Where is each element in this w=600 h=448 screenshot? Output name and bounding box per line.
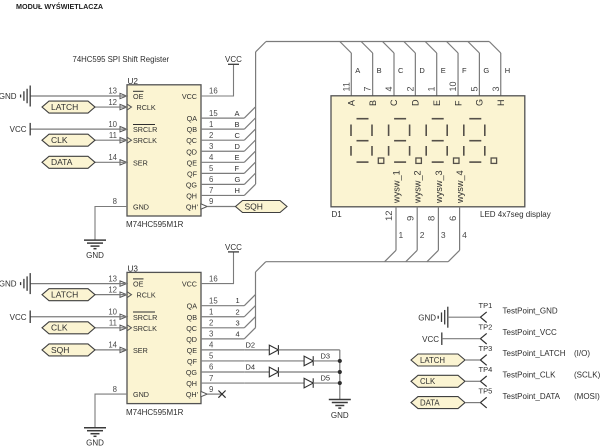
svg-text:7: 7	[363, 86, 373, 91]
svg-text:G: G	[483, 66, 489, 75]
svg-text:TestPoint_CLK: TestPoint_CLK	[503, 371, 557, 380]
svg-text:1: 1	[236, 296, 240, 305]
svg-text:SER: SER	[133, 158, 148, 167]
svg-text:12: 12	[108, 98, 117, 107]
svg-text:QH: QH	[186, 379, 197, 388]
svg-text:OE: OE	[133, 92, 144, 101]
svg-text:10: 10	[108, 307, 117, 316]
svg-text:QA: QA	[187, 302, 198, 311]
svg-text:VCC: VCC	[225, 243, 242, 252]
svg-text:H: H	[496, 100, 506, 107]
svg-text:U2: U2	[128, 77, 139, 86]
svg-text:(MOSI): (MOSI)	[574, 392, 600, 401]
svg-text:8: 8	[113, 385, 117, 394]
svg-text:C: C	[235, 131, 241, 140]
svg-text:F: F	[235, 164, 240, 173]
svg-text:QC: QC	[186, 136, 197, 145]
svg-text:TestPoint_LATCH: TestPoint_LATCH	[503, 349, 566, 358]
svg-text:15: 15	[209, 109, 218, 118]
svg-text:9: 9	[209, 385, 213, 394]
svg-text:QE: QE	[187, 158, 198, 167]
svg-text:11: 11	[109, 319, 117, 328]
svg-text:13: 13	[108, 87, 117, 96]
svg-text:G: G	[475, 99, 485, 106]
svg-text:10: 10	[108, 120, 117, 129]
svg-text:LED 4x7seg display: LED 4x7seg display	[480, 210, 551, 219]
svg-text:2: 2	[420, 230, 425, 240]
svg-text:4: 4	[209, 341, 214, 350]
svg-text:12: 12	[384, 210, 395, 221]
svg-text:wysw_1: wysw_1	[392, 170, 402, 204]
svg-text:4: 4	[462, 230, 467, 240]
svg-text:SRCLR: SRCLR	[133, 125, 157, 134]
svg-text:TP3: TP3	[479, 344, 493, 353]
svg-text:QH': QH'	[186, 203, 199, 212]
svg-text:CLK: CLK	[51, 323, 68, 333]
svg-text:1: 1	[209, 120, 213, 129]
svg-text:GND: GND	[133, 203, 149, 212]
svg-text:5: 5	[469, 86, 479, 91]
svg-text:SRCLR: SRCLR	[133, 313, 157, 322]
svg-text:QB: QB	[187, 125, 198, 134]
svg-text:2: 2	[209, 319, 213, 328]
svg-text:7: 7	[209, 374, 213, 383]
svg-text:D5: D5	[321, 374, 331, 383]
svg-text:VCC: VCC	[182, 280, 197, 289]
svg-text:A: A	[347, 100, 357, 106]
svg-text:3: 3	[209, 142, 213, 151]
svg-text:4: 4	[384, 86, 394, 91]
svg-text:M74HC595M1R: M74HC595M1R	[126, 220, 184, 229]
svg-text:D4: D4	[246, 363, 256, 372]
svg-text:QD: QD	[186, 335, 197, 344]
svg-text:SRCLK: SRCLK	[133, 136, 157, 145]
svg-text:D: D	[419, 66, 425, 75]
svg-text:15: 15	[209, 296, 218, 305]
svg-text:74HC595 SPI Shift Register: 74HC595 SPI Shift Register	[73, 55, 170, 64]
svg-text:D: D	[235, 142, 241, 151]
svg-text:SQH: SQH	[51, 345, 69, 355]
svg-text:5: 5	[209, 164, 214, 173]
svg-text:14: 14	[108, 341, 117, 350]
svg-text:14: 14	[108, 153, 117, 162]
svg-text:E: E	[235, 153, 240, 162]
svg-text:TestPoint_GND: TestPoint_GND	[503, 306, 558, 315]
svg-text:6: 6	[209, 175, 213, 184]
svg-text:QC: QC	[186, 324, 197, 333]
svg-text:QF: QF	[187, 169, 198, 178]
svg-text:GND: GND	[0, 280, 17, 289]
svg-text:6: 6	[209, 363, 213, 372]
svg-text:QB: QB	[187, 313, 198, 322]
svg-text:D1: D1	[332, 210, 343, 219]
svg-text:6: 6	[448, 216, 459, 221]
svg-text:F: F	[462, 66, 467, 75]
svg-text:RCLK: RCLK	[137, 291, 156, 300]
svg-text:VCC: VCC	[422, 335, 439, 344]
svg-text:3: 3	[236, 318, 240, 327]
svg-text:SER: SER	[133, 346, 148, 355]
svg-text:TestPoint_DATA: TestPoint_DATA	[503, 392, 561, 401]
svg-text:H: H	[505, 66, 510, 75]
svg-text:16: 16	[209, 87, 218, 96]
svg-text:TestPoint_VCC: TestPoint_VCC	[503, 328, 557, 337]
svg-text:LATCH: LATCH	[51, 290, 78, 300]
svg-text:VCC: VCC	[225, 55, 242, 64]
svg-text:GND: GND	[331, 411, 349, 420]
svg-text:(SCLK): (SCLK)	[574, 371, 600, 380]
svg-text:TP4: TP4	[479, 365, 493, 374]
svg-text:3: 3	[209, 330, 213, 339]
svg-text:SQH: SQH	[245, 201, 263, 211]
svg-text:TP5: TP5	[479, 386, 493, 395]
svg-text:7: 7	[209, 186, 213, 195]
svg-text:VCC: VCC	[182, 92, 197, 101]
svg-text:2: 2	[405, 86, 415, 91]
svg-text:GND: GND	[133, 390, 149, 399]
svg-text:9: 9	[405, 216, 416, 221]
svg-text:D3: D3	[321, 351, 331, 360]
svg-text:E: E	[441, 66, 446, 75]
svg-text:8: 8	[113, 197, 117, 206]
svg-text:QH: QH	[186, 191, 197, 200]
svg-text:M74HC595M1R: M74HC595M1R	[126, 408, 184, 417]
svg-text:(I/O): (I/O)	[574, 349, 590, 358]
svg-text:SRCLK: SRCLK	[133, 324, 157, 333]
svg-text:1: 1	[209, 307, 213, 316]
svg-text:D: D	[411, 99, 421, 106]
svg-text:2: 2	[209, 131, 213, 140]
svg-text:1: 1	[399, 230, 404, 240]
svg-text:11: 11	[109, 131, 117, 140]
svg-text:A: A	[235, 109, 240, 118]
svg-text:12: 12	[108, 285, 117, 294]
svg-text:TP1: TP1	[479, 301, 493, 310]
svg-text:MODUŁ WYŚWIETLACZA: MODUŁ WYŚWIETLACZA	[16, 2, 103, 11]
svg-text:VCC: VCC	[10, 313, 27, 322]
svg-text:C: C	[398, 66, 404, 75]
svg-text:16: 16	[209, 274, 218, 283]
svg-text:QA: QA	[187, 114, 198, 123]
svg-text:9: 9	[209, 197, 213, 206]
svg-text:11: 11	[341, 82, 351, 91]
svg-text:G: G	[235, 175, 241, 184]
svg-text:4: 4	[209, 153, 214, 162]
svg-text:13: 13	[108, 274, 117, 283]
svg-text:1: 1	[427, 86, 437, 91]
svg-text:wysw_4: wysw_4	[455, 170, 465, 204]
svg-text:C: C	[389, 99, 399, 106]
svg-text:5: 5	[209, 352, 214, 361]
svg-text:GND: GND	[418, 313, 436, 322]
svg-text:CLK: CLK	[51, 135, 68, 145]
svg-text:LATCH: LATCH	[420, 356, 445, 365]
svg-text:DATA: DATA	[51, 157, 73, 167]
svg-text:GND: GND	[0, 92, 17, 101]
svg-text:3: 3	[491, 86, 501, 91]
svg-text:wysw_3: wysw_3	[434, 170, 444, 204]
svg-text:QG: QG	[186, 180, 198, 189]
svg-text:B: B	[368, 100, 378, 106]
svg-text:B: B	[235, 120, 240, 129]
svg-text:GND: GND	[86, 439, 104, 448]
svg-text:QD: QD	[186, 147, 197, 156]
svg-text:U3: U3	[128, 265, 139, 274]
svg-text:8: 8	[427, 216, 438, 221]
svg-text:10: 10	[448, 81, 458, 91]
svg-text:QE: QE	[187, 346, 198, 355]
svg-text:E: E	[432, 100, 442, 106]
svg-text:3: 3	[441, 230, 446, 240]
svg-text:OE: OE	[133, 280, 144, 289]
svg-text:A: A	[355, 66, 360, 75]
svg-text:VCC: VCC	[10, 125, 27, 134]
svg-text:F: F	[453, 100, 463, 106]
svg-text:wysw_2: wysw_2	[413, 170, 423, 204]
svg-text:GND: GND	[86, 251, 104, 260]
svg-text:LATCH: LATCH	[51, 102, 78, 112]
svg-text:DATA: DATA	[420, 399, 440, 408]
svg-text:B: B	[377, 66, 382, 75]
svg-text:2: 2	[236, 307, 240, 316]
svg-text:RCLK: RCLK	[137, 103, 156, 112]
svg-text:QG: QG	[186, 368, 198, 377]
svg-text:H: H	[235, 186, 240, 195]
svg-text:D2: D2	[246, 340, 256, 349]
svg-text:QH': QH'	[186, 390, 199, 399]
svg-text:CLK: CLK	[420, 377, 436, 386]
svg-text:TP2: TP2	[479, 323, 493, 332]
svg-text:QF: QF	[187, 357, 198, 366]
svg-text:4: 4	[236, 329, 240, 338]
